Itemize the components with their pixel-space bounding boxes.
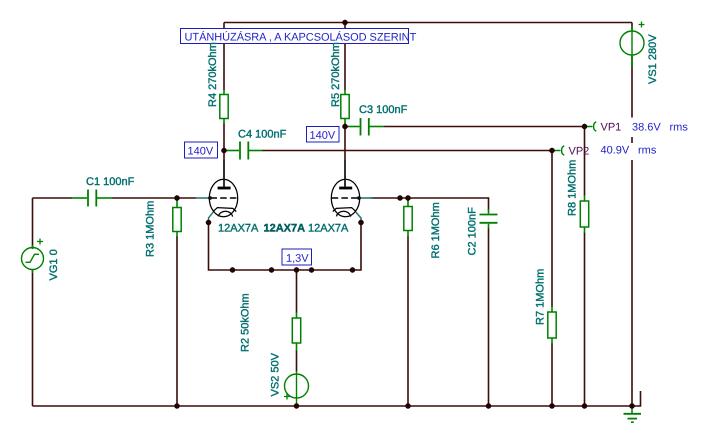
node cathode bus dot 4 (309, 267, 314, 272)
node bottom rail R8 (582, 403, 587, 408)
probe VP2 (554, 146, 564, 155)
voltage source VS1 (620, 22, 645, 68)
wire R4 anode string x=224 (223, 23, 225, 188)
svg-text:C4 100nF: C4 100nF (238, 129, 287, 141)
label VP1 reading (629, 118, 665, 138)
node bottom rail ground (629, 403, 634, 408)
node grid net junction b R6 top (405, 195, 410, 200)
resistor R3 (173, 199, 181, 237)
node VP2 junction (549, 148, 554, 153)
svg-text:rms: rms (638, 145, 657, 157)
node label 140V left (185, 142, 218, 158)
svg-text:rms: rms (669, 122, 688, 134)
node R3 top junction (174, 195, 179, 200)
node cathode bus dot 2 (269, 267, 274, 272)
svg-text:UTÁNHÚZÁSRA , A KAPCSOLÁSOD SZ: UTÁNHÚZÁSRA , A KAPCSOLÁSOD SZERINT (184, 31, 416, 44)
capacitor C2 (480, 209, 498, 229)
resistor R8 (580, 195, 588, 233)
svg-text:R4 270kOhm: R4 270kOhm (207, 42, 219, 107)
svg-text:R6 1MOhm: R6 1MOhm (430, 202, 442, 258)
wire VP1 net y=126.5 (345, 126, 585, 128)
svg-text:12AX7A: 12AX7A (263, 223, 305, 235)
node R4 anode 140V junction (221, 148, 226, 153)
wire top rail (224, 22, 632, 24)
resistor R7 (548, 306, 556, 344)
node cathode bus dot 1 (230, 267, 235, 272)
wire R6 drop x=408 (407, 198, 409, 406)
generator VG1 (22, 239, 44, 274)
wire C2 drop x=488.5 (488, 228, 490, 406)
probe VP1 (586, 122, 596, 131)
wire cathode bus y=270 (209, 223, 362, 271)
capacitor C4 (226, 142, 263, 160)
note box utanhuzasra (181, 29, 417, 44)
svg-text:VS1 280V: VS1 280V (647, 34, 659, 84)
node grid net junction a (397, 195, 402, 200)
node cathode bus dot 3 R2 top (294, 267, 299, 272)
svg-text:140V: 140V (187, 146, 213, 158)
resistor R6 (404, 199, 412, 237)
node tube1 cathode junction (206, 220, 211, 225)
wire tube2 grid net y=198 right (371, 198, 489, 210)
op-amp tube U2 12AX7A right triode (331, 160, 373, 222)
resistor R5 (341, 90, 349, 124)
node bottom rail R7 (549, 403, 554, 408)
wire R3 drop x=177 (176, 198, 178, 406)
node cathode bus dot 5 (350, 267, 355, 272)
node bottom rail R6 (405, 403, 410, 408)
node bottom rail C2 (486, 403, 491, 408)
svg-text:R5 270kOhm: R5 270kOhm (330, 42, 342, 107)
resistor R2 (292, 312, 300, 351)
svg-text:12AX7A: 12AX7A (218, 223, 259, 235)
label VP2 reading (597, 143, 634, 160)
node tube2 cathode junction (358, 220, 363, 225)
node tube2 grid pin (357, 196, 361, 200)
svg-text:R3 1MOhm: R3 1MOhm (145, 201, 157, 257)
wire R5 anode string x=345 (344, 23, 346, 188)
node label 1,3V (282, 249, 312, 265)
svg-text:VP2: VP2 (568, 146, 589, 158)
ground (624, 406, 642, 422)
svg-text:C3 100nF: C3 100nF (359, 104, 408, 116)
label VP2 reading units (635, 143, 661, 160)
svg-text:140V: 140V (309, 130, 335, 142)
node bottom rail R3 (174, 403, 179, 408)
label VP1 reading units (666, 118, 692, 138)
svg-text:40.9V: 40.9V (600, 145, 629, 157)
op-amp tube U1 12AX7A left triode (196, 160, 238, 222)
wire bottom rail (33, 405, 633, 407)
wire input net y=198 left (33, 197, 197, 199)
node R5 anode 140V junction (342, 124, 347, 129)
wire R7 drop x=552 (551, 151, 553, 407)
node bottom rail VS2 (294, 403, 299, 408)
svg-text:1,3V: 1,3V (286, 253, 309, 265)
wire VS1 right drop (631, 23, 633, 407)
svg-text:R8 1MOhm: R8 1MOhm (567, 160, 579, 216)
resistor R4 (220, 90, 228, 124)
wire R8 drop x=584.5 (584, 127, 586, 407)
svg-text:38.6V: 38.6V (632, 122, 661, 134)
node label 140V right (307, 127, 340, 143)
wire left rail from grid net down to bottom (32, 198, 34, 406)
wire VP2 net y=150.5 (262, 150, 552, 152)
svg-text:R2 50kOhm: R2 50kOhm (240, 293, 252, 352)
node tube1 grid pin (208, 196, 212, 200)
voltage source VS2 (284, 371, 309, 406)
svg-text:R7 1MOhm: R7 1MOhm (535, 269, 547, 325)
svg-text:12AX7A: 12AX7A (308, 223, 349, 235)
svg-text:VP1: VP1 (600, 122, 621, 134)
svg-text:C1 100nF: C1 100nF (86, 176, 135, 188)
svg-text:C2 100nF: C2 100nF (467, 207, 479, 256)
capacitor C3 (347, 118, 385, 136)
svg-text:VS2 50V: VS2 50V (270, 352, 282, 396)
node VP1 junction (582, 124, 587, 129)
capacitor C1 (72, 190, 113, 207)
svg-text:VG1 0: VG1 0 (48, 249, 60, 280)
node top rail R5 junction (342, 20, 347, 25)
wire R2 VS2 drop x=296.5 (296, 270, 298, 372)
wire ground hook (632, 391, 641, 406)
